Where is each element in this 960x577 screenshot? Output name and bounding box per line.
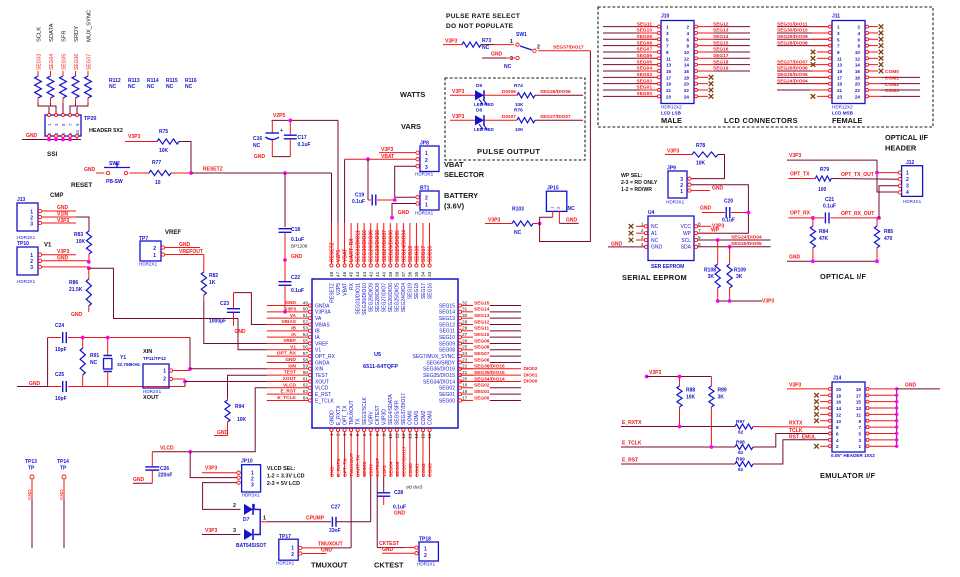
pin 54 IA [267,332,321,341]
svg-text:SFR: SFR [62,30,68,42]
svg-text:SEG08: SEG08 [439,348,455,354]
pin 39 SEG26/DIO6 [388,223,394,312]
ground GND [254,154,290,160]
svg-text:TP: TP [60,466,67,472]
svg-text:SDATA: SDATA [49,23,55,42]
svg-text:100: 100 [818,187,827,193]
pin 46 VBAT [342,223,348,296]
svg-text:62: 62 [738,430,744,436]
wire RESETZ to pin 48 [331,173,333,223]
connector TP18 HDR2X1 [415,537,439,567]
connector J10 HDR12X2 LCD LSB [658,14,698,126]
svg-text:CMP: CMP [50,193,63,199]
svg-text:14: 14 [414,433,419,439]
wire TCLK [753,428,830,447]
svg-text:SEG12: SEG12 [713,21,729,27]
svg-text:HDR3X1: HDR3X1 [666,200,685,205]
svg-text:OPT_TX: OPT_TX [343,458,349,477]
svg-text:40: 40 [381,271,386,277]
svg-text:R73: R73 [482,38,491,44]
svg-text:49: 49 [303,300,309,305]
pin 16 COM3 [427,410,433,477]
node SEG05 [62,54,68,70]
svg-text:10K: 10K [696,161,706,167]
resistor R74 10K [514,83,535,107]
svg-text:28: 28 [462,326,468,331]
svg-text:SEG16: SEG16 [427,283,433,299]
svg-text:62: 62 [303,383,309,388]
wire [540,217,553,223]
pin 47 V2P5 [336,223,342,295]
svg-text:10K: 10K [159,148,169,154]
svg-text:WP SEL:: WP SEL: [621,173,643,179]
svg-text:19: 19 [462,383,468,388]
svg-text:SEG18: SEG18 [713,59,729,65]
wire RXTX [753,421,830,428]
svg-text:58: 58 [303,357,309,362]
svg-text:R89: R89 [718,388,727,394]
svg-text:62: 62 [738,467,744,473]
pin 63 E_RST [267,389,331,398]
svg-text:19: 19 [837,82,843,87]
no-connect [869,50,884,55]
svg-text:LED RED: LED RED [474,102,495,107]
svg-text:SEG18: SEG18 [414,283,420,299]
svg-text:0.1uF: 0.1uF [291,288,304,294]
svg-text:9: 9 [381,433,386,436]
svg-text:53: 53 [303,326,309,331]
svg-text:E_TCLK: E_TCLK [622,441,642,447]
svg-text:25: 25 [462,345,468,350]
svg-text:SEG15: SEG15 [439,303,455,309]
svg-text:C22: C22 [291,275,300,281]
svg-text:SW1: SW1 [516,32,527,38]
wire SEG19 [698,66,751,72]
resistor R91 NC [80,338,99,387]
wire SEG27/DIO07 [777,59,829,67]
svg-text:E_RXTX: E_RXTX [622,420,642,426]
ground GND [214,428,229,436]
pin 23 SEG6/SRDY [426,357,521,366]
svg-text:VREF: VREF [315,341,328,347]
svg-text:WP: WP [711,228,720,234]
svg-text:(3.6V): (3.6V) [444,202,465,211]
wire [70,103,76,114]
svg-text:VARS: VARS [401,122,421,131]
svg-text:19: 19 [856,387,862,392]
svg-text:44: 44 [355,271,360,277]
svg-text:SEG19: SEG19 [408,246,414,262]
svg-text:SEG09: SEG09 [637,34,653,40]
svg-text:17: 17 [462,395,468,400]
svg-text:47: 47 [336,271,341,277]
pin 57 OPT_RX [267,351,336,360]
ic U5 6511-64TQFP body [312,279,458,428]
svg-text:HDR2X1: HDR2X1 [139,262,158,267]
svg-text:6: 6 [362,433,367,436]
svg-text:1K: 1K [209,280,216,286]
svg-text:C27: C27 [331,505,340,511]
svg-text:1: 1 [291,546,294,552]
capacitor C18 [279,173,308,259]
svg-text:GND: GND [84,167,96,173]
node SFR [62,30,68,42]
svg-text:GND: GND [285,300,296,306]
label CKTEST [374,561,404,570]
svg-text:NC: NC [514,230,522,236]
svg-text:V3P3: V3P3 [284,306,296,312]
svg-text:SEG03: SEG03 [637,72,653,78]
svg-text:MUX_SYNC: MUX_SYNC [87,10,93,42]
connector J13 HDR3X1 [17,197,42,240]
svg-text:TP13: TP13 [25,459,37,465]
svg-text:SSI: SSI [47,151,58,158]
svg-text:R74: R74 [514,83,523,89]
svg-text:18: 18 [684,75,690,80]
node V1IN [42,212,90,232]
svg-text:SEG10: SEG10 [439,335,455,341]
svg-text:SEG13: SEG13 [713,28,729,34]
svg-text:17: 17 [666,75,672,80]
ground GND net SSI [22,133,81,141]
wire SEG11 [603,21,658,27]
svg-text:RESETZ: RESETZ [203,167,223,173]
led D6 LED RED [474,108,495,132]
node SCLK [37,27,43,42]
wire JP10 pin3 to D7 [203,483,241,510]
svg-text:3: 3 [342,433,347,436]
wire V2P5 to pin 47 [337,120,339,223]
svg-text:21: 21 [666,88,672,93]
svg-text:35: 35 [414,271,419,277]
pin 3 OPT_TX [342,405,348,477]
ground GND [559,218,578,224]
svg-text:10K: 10K [237,417,247,423]
svg-text:3K: 3K [736,274,743,280]
svg-text:Y1: Y1 [120,355,126,361]
svg-text:E_RST: E_RST [622,458,638,464]
pin 1 GNDD [329,410,335,477]
wire JP8 pin3 to BT1 [395,166,416,197]
pin 6 SEG3/SCLK [362,397,368,477]
no-connect [811,56,829,61]
svg-text:11: 11 [856,412,861,417]
svg-text:GNDA: GNDA [315,303,330,309]
svg-text:1: 1 [425,203,428,209]
svg-text:NC: NC [568,206,576,212]
pin 40 SEG27/DIO7 [381,223,387,312]
node V3P3 [450,89,475,95]
svg-text:LCD CONNECTORS: LCD CONNECTORS [724,116,798,125]
pin 58 GNDA [267,357,330,366]
svg-text:3: 3 [837,31,840,36]
svg-text:2: 2 [906,177,909,183]
svg-text:15: 15 [421,433,426,439]
svg-text:SEG09: SEG09 [439,341,455,347]
svg-text:SEG02: SEG02 [637,78,653,84]
svg-text:17: 17 [856,393,862,398]
svg-text:17: 17 [837,75,843,80]
connector JP15 [546,186,575,224]
svg-text:SEG28/DIO08: SEG28/DIO08 [375,230,381,262]
svg-text:8: 8 [698,221,701,226]
svg-text:30: 30 [462,313,468,318]
node GND wire [42,256,91,264]
svg-text:GND: GND [398,210,410,216]
svg-text:R83: R83 [74,232,83,238]
pin 17 SEG00 [439,395,521,404]
svg-text:4: 4 [349,433,354,436]
resistor R108 [704,240,720,301]
svg-text:SEG31/DIO11: SEG31/DIO11 [777,21,808,27]
svg-text:24: 24 [462,351,468,356]
svg-text:DIO07: DIO07 [502,114,516,120]
svg-text:LED RED: LED RED [474,127,495,132]
svg-text:J14: J14 [833,376,842,382]
svg-text:NC: NC [90,360,98,366]
svg-text:SEG31/DIO11: SEG31/DIO11 [356,230,362,262]
node WP [698,228,720,234]
label VLCD SEL [267,466,305,487]
svg-text:V3P3: V3P3 [128,134,140,140]
svg-text:VREF: VREF [165,230,181,236]
svg-text:2: 2 [425,158,428,164]
pin 52 VBIAS [267,319,331,328]
wire SEG37/DIO17 [538,45,590,51]
svg-text:3K: 3K [718,395,725,401]
wire RST_EMUL [753,434,830,464]
pin 21 SEG35/DIO15 [423,370,538,379]
svg-text:HDR12X2: HDR12X2 [661,105,682,110]
svg-text:IB: IB [291,325,296,331]
pin 38 SEG25/DIO5 [394,223,400,312]
svg-text:RESETZ: RESETZ [329,283,335,303]
svg-text:HEADER 5X2: HEADER 5X2 [89,128,123,134]
wire SEG02 [603,78,658,84]
svg-text:7: 7 [698,228,701,233]
svg-text:1: 1 [163,369,166,375]
node GND [165,242,201,248]
wire SEG26/DIO06 [777,66,829,72]
svg-text:11: 11 [837,56,842,61]
svg-text:SEG14: SEG14 [439,310,455,316]
svg-text:VA: VA [315,316,322,322]
label PULSE OUTPUT [477,147,540,156]
svg-text:21: 21 [462,370,468,375]
svg-text:R91: R91 [90,353,99,359]
svg-text:SEG00: SEG00 [439,398,455,404]
svg-text:SEG01: SEG01 [474,389,490,395]
svg-text:V3P3: V3P3 [667,149,679,155]
svg-text:VCC: VCC [680,224,691,230]
pin 7 VDRV [368,411,374,477]
svg-text:V2P5: V2P5 [336,250,342,262]
svg-text:SCL: SCL [681,238,691,244]
svg-text:SEG27/DIO07: SEG27/DIO07 [777,59,808,65]
svg-text:2: 2 [424,553,427,559]
label WP SEL [621,173,658,193]
svg-text:NC: NC [651,224,659,230]
pin 24 SEG7/MUX_SYNC [412,351,521,360]
resistor R73 NC [462,38,495,51]
svg-text:SEG29/DIO9: SEG29/DIO9 [368,283,374,312]
svg-text:2: 2 [836,444,839,449]
svg-text:TEST: TEST [284,370,296,376]
resistor R79 [815,167,831,193]
wire SEG09 [603,34,658,40]
svg-text:V1: V1 [44,243,52,249]
svg-text:0.1uF: 0.1uF [291,237,304,243]
svg-text:V3P3: V3P3 [789,153,801,159]
svg-text:12: 12 [401,433,406,439]
connector TP11/TP12 XIN XOUT header [143,349,173,401]
wire SEG28/DIO08 [777,40,829,46]
wire SEG31/DIO11 [777,21,829,27]
svg-text:37: 37 [401,271,406,277]
svg-text:GND: GND [179,242,191,248]
wire VDRV to C27 [370,477,372,522]
capacitor C26 [145,452,172,484]
wire SEG30/DIO10 [777,28,829,34]
svg-text:SEG18: SEG18 [414,246,420,262]
capacitor C22 [279,260,305,314]
wire TMUXOUT net [302,477,351,548]
svg-text:6: 6 [698,235,701,240]
svg-text:PULSE OUTPUT: PULSE OUTPUT [477,147,540,156]
svg-text:3: 3 [641,235,644,240]
pin 33 SEG16 [427,223,433,299]
svg-text:OPTICAL I/F: OPTICAL I/F [885,133,928,142]
svg-text:UART_RX: UART_RX [349,238,355,262]
node COM0 [869,69,900,76]
svg-text:NC: NC [109,84,117,90]
label OPTICAL I/F HEADER [885,133,928,153]
ground GND [133,477,152,483]
svg-text:PULSE RATE SELECT: PULSE RATE SELECT [446,13,520,20]
label WATTS [400,90,425,99]
svg-text:HDR2X1: HDR2X1 [143,389,162,394]
svg-text:1: 1 [263,516,266,522]
pin 56 V1 [267,344,322,353]
svg-text:23: 23 [462,357,468,362]
wire SEG07 [603,47,658,53]
wire SEG24/DIO04 [777,78,829,84]
svg-text:2: 2 [291,552,294,558]
no-connect [814,444,828,449]
pin 8 CKTEST [375,405,381,477]
svg-text:5: 5 [698,242,701,247]
pin 49 GNDA [267,300,330,309]
ic U4 SER EEPROM [641,210,701,270]
pin 15 COM2 [421,410,427,477]
svg-text:2: 2 [686,25,689,30]
svg-text:V3P3: V3P3 [649,370,661,376]
svg-text:C21: C21 [825,197,834,203]
svg-text:SEG11: SEG11 [637,21,653,27]
ground GND wire [787,255,879,264]
svg-text:XOUT: XOUT [283,376,296,382]
wire SEG18 [698,59,751,65]
svg-text:NC: NC [147,84,155,90]
svg-text:60: 60 [303,370,309,375]
svg-text:RX: RX [349,282,355,290]
svg-text:TP14: TP14 [57,459,69,465]
svg-text:SEG00: SEG00 [637,91,653,97]
svg-text:COM2: COM2 [421,463,427,477]
svg-text:13: 13 [856,406,862,411]
svg-text:SEG7/MUX_SYNC: SEG7/MUX_SYNC [412,354,455,360]
svg-text:SEG30/DIO10: SEG30/DIO10 [362,230,368,262]
svg-text:U5: U5 [374,352,381,358]
pin 18 SEG01 [439,389,521,398]
wire SEG16 [698,47,751,53]
svg-text:SELECTOR: SELECTOR [444,170,485,179]
svg-text:57: 57 [303,351,309,356]
svg-text:TX: TX [355,418,361,425]
svg-text:1: 1 [680,189,683,195]
node V3P3 [42,218,77,224]
node SRDY [74,26,80,42]
svg-text:VLCD: VLCD [160,446,174,452]
resistor R88 [677,377,696,427]
svg-text:9: 9 [666,50,669,55]
svg-text:NC: NC [482,45,490,51]
svg-text:55: 55 [303,338,309,343]
pin 4 TMUXOUT [349,400,355,477]
svg-text:3: 3 [233,528,236,534]
svg-text:CKTEST: CKTEST [375,458,381,477]
svg-text:5: 5 [858,431,861,436]
svg-text:SEG29/DIO09: SEG29/DIO09 [777,34,808,40]
svg-text:HDR2X1: HDR2X1 [276,561,295,566]
svg-text:V1: V1 [315,348,321,354]
svg-text:GND: GND [789,255,801,261]
node E_RST wire [621,458,735,465]
svg-text:E_TCLK: E_TCLK [277,395,296,401]
svg-text:1-2 = 3.3V LCD: 1-2 = 3.3V LCD [267,474,305,480]
svg-text:1000pF: 1000pF [209,319,226,325]
svg-text:2-3 = RD ONLY: 2-3 = RD ONLY [621,180,658,186]
svg-text:TP10: TP10 [17,241,29,247]
wire [77,103,88,114]
svg-text:5: 5 [355,433,360,436]
connector JP8 HDR3X1 [415,141,439,177]
svg-text:2: 2 [537,45,540,51]
node SEG07 [87,54,93,70]
node V3P3 pullup rail [645,370,712,378]
svg-text:E_TCLK: E_TCLK [315,398,335,404]
svg-text:8: 8 [686,44,689,49]
svg-text:SEG26/DIO06: SEG26/DIO06 [540,89,571,95]
connector J11 HDR12X2 LCD MSB [829,14,869,126]
node SEG06 [74,54,80,70]
svg-text:20: 20 [462,376,468,381]
svg-text:CPUMP: CPUMP [306,516,325,522]
capacitor C23 [209,293,267,326]
svg-text:SEG12: SEG12 [439,322,455,328]
svg-text:2-3 = 5V LCD: 2-3 = 5V LCD [267,481,300,487]
svg-text:1: 1 [906,171,909,177]
node MUX_SYNC [87,10,93,42]
svg-text:42: 42 [368,271,373,277]
no-connect [698,88,714,93]
label RESET [71,182,92,189]
svg-text:CKTEST: CKTEST [374,561,404,570]
connector J14 0.05in HEADER 10X2 [829,376,876,459]
svg-text:SEG27/DIO7: SEG27/DIO7 [382,283,388,312]
node OPT_TX [788,172,815,179]
svg-text:C17: C17 [298,135,307,141]
